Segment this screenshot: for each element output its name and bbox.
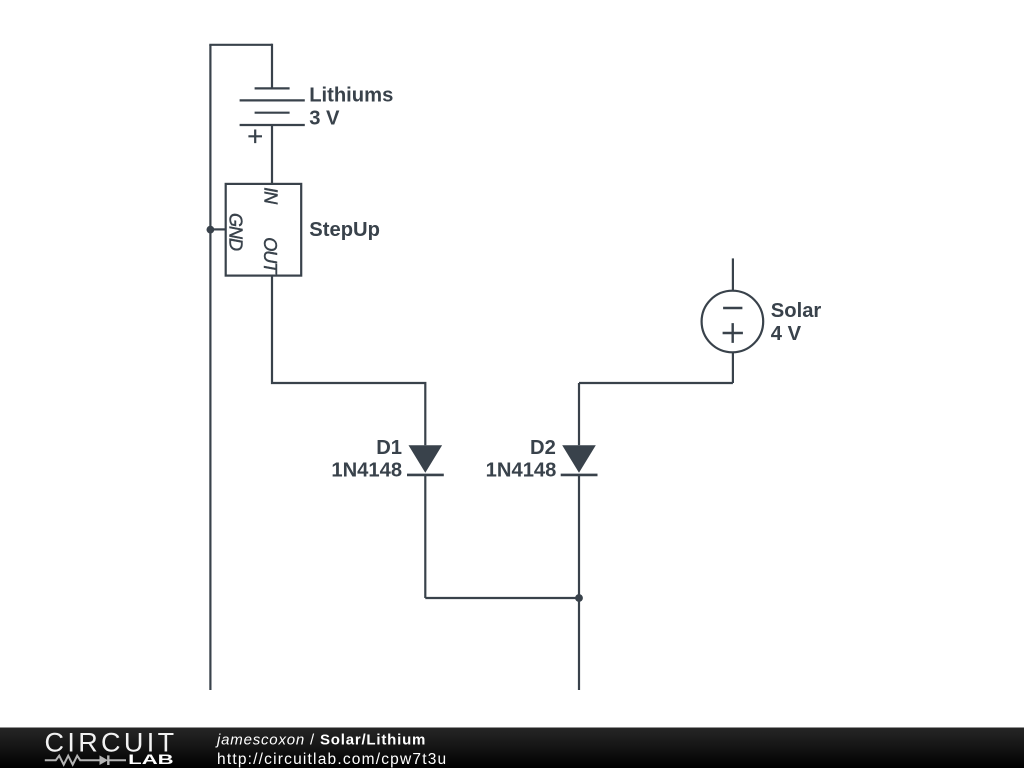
label Lithiums 3V — [309, 85, 393, 130]
wire: horizontal from D2 to solar — [579, 382, 733, 384]
voltage source V1 Solar 4V — [702, 291, 764, 353]
svg-text:jamescoxon / Solar/Lithium: jamescoxon / Solar/Lithium — [215, 732, 426, 749]
svg-text:1N4148: 1N4148 — [331, 460, 402, 482]
wire: bottom stub down from node — [578, 598, 580, 690]
wire: D2 cathode down to node — [578, 475, 580, 598]
label Solar 4V — [771, 300, 822, 345]
label D2 1N4148 — [486, 437, 557, 482]
pin GND — [226, 213, 246, 251]
pin IN — [261, 187, 281, 205]
junction dot on ground rail — [207, 226, 215, 234]
wire: bottom horizontal D1 to D2 — [425, 597, 579, 599]
wire: left ground rail vertical — [209, 45, 211, 690]
wire: OUT down, right, down to D1 — [272, 276, 425, 446]
svg-text:GND: GND — [226, 213, 246, 251]
logo CIRCUIT text — [45, 728, 178, 758]
wire: battery top lead — [271, 44, 273, 89]
svg-text:D2: D2 — [530, 437, 556, 459]
pin OUT — [260, 237, 280, 275]
diode D1 — [407, 445, 444, 475]
svg-text:D1: D1 — [376, 437, 402, 459]
label StepUp — [309, 219, 380, 241]
logo resistor-diode symbol — [45, 755, 126, 765]
footer attribution line 2 — [217, 751, 447, 768]
wire: D2 anode from horizontal down to D2 — [578, 383, 580, 445]
svg-text:LAB: LAB — [128, 752, 174, 767]
svg-text:OUT: OUT — [260, 237, 280, 275]
svg-text:4 V: 4 V — [771, 323, 802, 345]
wire: top horizontal from rail to battery — [209, 44, 272, 46]
logo LAB text — [128, 752, 174, 767]
svg-text:1N4148: 1N4148 — [486, 460, 557, 482]
wire: solar top open stub — [732, 258, 734, 290]
svg-text:Solar: Solar — [771, 300, 822, 322]
wire: D1 cathode down to bottom node — [424, 475, 426, 598]
IC U1 StepUp box — [226, 184, 302, 276]
svg-text:IN: IN — [261, 187, 281, 205]
svg-text:StepUp: StepUp — [309, 219, 380, 241]
svg-text:Lithiums: Lithiums — [309, 85, 393, 107]
diode D2 — [561, 445, 598, 475]
wire: battery bottom lead to StepUp IN — [271, 125, 273, 184]
junction dot at bottom node — [575, 594, 583, 602]
svg-text:3 V: 3 V — [309, 108, 340, 130]
label D1 1N4148 — [331, 437, 402, 482]
footer bar — [0, 728, 1024, 768]
battery BT1 Lithiums 3V — [240, 88, 305, 143]
wire: solar bottom lead — [732, 352, 734, 383]
svg-text:http://circuitlab.com/cpw7t3u: http://circuitlab.com/cpw7t3u — [217, 751, 447, 768]
wire: GND pin stub to rail — [210, 228, 225, 230]
footer attribution line 1 — [215, 732, 426, 749]
